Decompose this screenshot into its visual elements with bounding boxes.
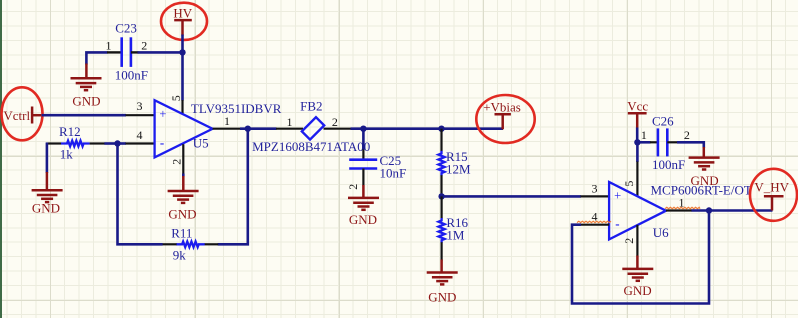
svg-text:+Vbias: +Vbias — [483, 99, 521, 114]
svg-text:100nF: 100nF — [115, 68, 148, 83]
node Vcc/C26/U6 pin5 junction — [634, 139, 640, 145]
pin 4 of U5 — [126, 142, 155, 144]
svg-text:C23: C23 — [115, 21, 137, 36]
power port HV — [174, 20, 192, 35]
wire C23 pin1 to ground drop — [86, 52, 107, 64]
error squiggle at U6 output — [665, 207, 700, 208]
wire R11 to left riser — [118, 144, 163, 245]
svg-text:+: + — [614, 189, 621, 203]
annotation ellipse around V_HV — [750, 169, 797, 221]
svg-text:4: 4 — [137, 128, 143, 142]
wire U5 output to FB2 — [240, 127, 277, 130]
svg-text:GND: GND — [624, 283, 652, 298]
svg-text:2: 2 — [170, 159, 184, 165]
annotation ellipse around HV — [161, 3, 207, 40]
pin bottom of R15 — [440, 175, 442, 196]
svg-text:R11: R11 — [171, 225, 192, 240]
ground GND (C25) — [362, 185, 365, 198]
svg-text:1: 1 — [224, 114, 230, 128]
power port Vctrl — [31, 107, 43, 124]
svg-text:2: 2 — [346, 184, 360, 190]
ground GND (R16) — [440, 260, 443, 273]
wire HV down to U5 pin 5 — [181, 35, 184, 101]
pin 1 of U5 (output) — [213, 128, 241, 130]
pin 3 of U5 — [126, 114, 155, 116]
power port +Vbias — [495, 114, 511, 129]
wire junction to C26 pin 1 — [637, 141, 658, 144]
wire feedback loop U6 — [572, 211, 709, 304]
svg-text:1k: 1k — [60, 146, 73, 161]
node U5 output junction — [245, 126, 251, 132]
capacitor C25 — [349, 160, 377, 169]
svg-text:U5: U5 — [193, 136, 209, 151]
node R12 / U5 pin4 / feedback junction — [114, 140, 120, 146]
ground GND (U6 pin2) — [636, 256, 639, 270]
svg-text:GND: GND — [168, 207, 196, 222]
node U6 output junction — [706, 207, 712, 213]
resistor R15 — [438, 151, 444, 176]
svg-text:5: 5 — [169, 95, 183, 101]
power port Vcc — [628, 113, 647, 128]
resistor R12 — [46, 141, 105, 147]
svg-text:9k: 9k — [173, 248, 187, 263]
svg-text:1: 1 — [106, 39, 112, 53]
pin 2 of C25 — [362, 169, 364, 186]
wire junction down to U6 pin 5 — [636, 142, 639, 162]
svg-text:GND: GND — [32, 200, 60, 215]
svg-text:2: 2 — [141, 39, 147, 53]
pin 4 of U6 — [581, 224, 610, 226]
annotation ellipse around +Vbias — [476, 95, 534, 143]
pin 2 of C26 and wire to ground — [667, 142, 704, 148]
ground GND (R12) — [46, 172, 49, 190]
ground GND (U5 pin2) — [182, 174, 185, 192]
svg-text:C26: C26 — [652, 114, 674, 129]
svg-text:MCP6006RT-E/OT: MCP6006RT-E/OT — [651, 183, 752, 198]
resistor R16 — [439, 218, 445, 243]
svg-text:GND: GND — [72, 93, 100, 108]
pin 1 of FB2 — [276, 128, 303, 130]
wire junction to U6 pin 3 — [442, 195, 581, 198]
capacitor C26 — [658, 128, 667, 156]
power port V_HV — [764, 196, 784, 210]
pin 5 of U6 — [636, 162, 638, 197]
pin top of R15 — [440, 129, 442, 152]
resistor R11 — [162, 242, 218, 248]
wire R12 right to node — [104, 142, 117, 145]
svg-text:Vctrl: Vctrl — [3, 108, 30, 123]
op-amp U6 — [609, 182, 666, 239]
svg-text:-: - — [160, 135, 164, 150]
svg-text:U6: U6 — [653, 225, 669, 240]
svg-text:2: 2 — [332, 115, 338, 129]
svg-text:12M: 12M — [446, 161, 471, 176]
svg-text:3: 3 — [137, 99, 143, 113]
node R15 top junction — [438, 126, 444, 132]
op-amp U5 — [155, 100, 213, 157]
svg-text:1: 1 — [287, 115, 293, 129]
pin 1 of U6 (output) — [666, 209, 692, 211]
pin 2 of U5 — [182, 144, 184, 174]
svg-text:2: 2 — [622, 238, 636, 244]
pin 5 of U5 — [181, 100, 183, 114]
wire C23 pin2 to HV node — [138, 51, 183, 54]
wire down to C25 — [362, 129, 365, 160]
node R15/R16 junction — [438, 193, 444, 199]
svg-text:V_HV: V_HV — [754, 180, 789, 195]
wire R12 left to ground — [46, 143, 49, 174]
pin bottom of R16 — [441, 242, 443, 260]
svg-text:GND: GND — [428, 290, 456, 305]
pin top of R16 — [441, 196, 443, 218]
node C25 tap junction — [360, 126, 366, 132]
pin 2 of U6 — [636, 225, 638, 256]
svg-text:3: 3 — [592, 181, 598, 195]
svg-text:TLV9351IDBVR: TLV9351IDBVR — [191, 101, 282, 116]
ferrite bead FB2 — [302, 117, 324, 139]
svg-text:1: 1 — [641, 128, 647, 142]
wire Vcc to junction — [636, 128, 639, 143]
svg-text:MPZ1608B471ATA00: MPZ1608B471ATA00 — [252, 139, 370, 154]
svg-text:+: + — [159, 107, 166, 121]
wire feedback loop U5 (output down, through R11, up to inverting input) — [218, 129, 248, 245]
wire FB2 to +Vbias and R15 — [351, 127, 504, 130]
wire U6 output to V_HV — [692, 209, 773, 212]
ground GND (C26) — [703, 147, 706, 158]
node HV/C23 junction — [179, 49, 185, 55]
svg-text:Vcc: Vcc — [627, 99, 648, 114]
svg-text:R12: R12 — [59, 124, 81, 139]
svg-text:5: 5 — [622, 181, 636, 187]
pin 3 of U6 — [581, 195, 610, 197]
annotation ellipse around Vctrl — [2, 87, 43, 140]
svg-text:GND: GND — [349, 212, 377, 227]
svg-text:FB2: FB2 — [300, 99, 322, 114]
svg-text:100nF: 100nF — [652, 157, 685, 172]
ground GND (C23) — [85, 64, 88, 79]
sheet edge strip — [0, 0, 2, 318]
capacitor C23 — [107, 37, 139, 67]
wire node to U5 pin 4 — [118, 142, 127, 145]
svg-text:2: 2 — [684, 128, 690, 142]
pin 2 of FB2 — [324, 128, 352, 130]
wire Vctrl to U5 pin 3 — [42, 114, 127, 117]
svg-text:HV: HV — [173, 6, 192, 21]
svg-text:10nF: 10nF — [380, 166, 407, 181]
error squiggle under pin 4 of U6 — [577, 221, 611, 222]
svg-text:-: - — [615, 216, 619, 231]
svg-text:1M: 1M — [446, 228, 465, 243]
